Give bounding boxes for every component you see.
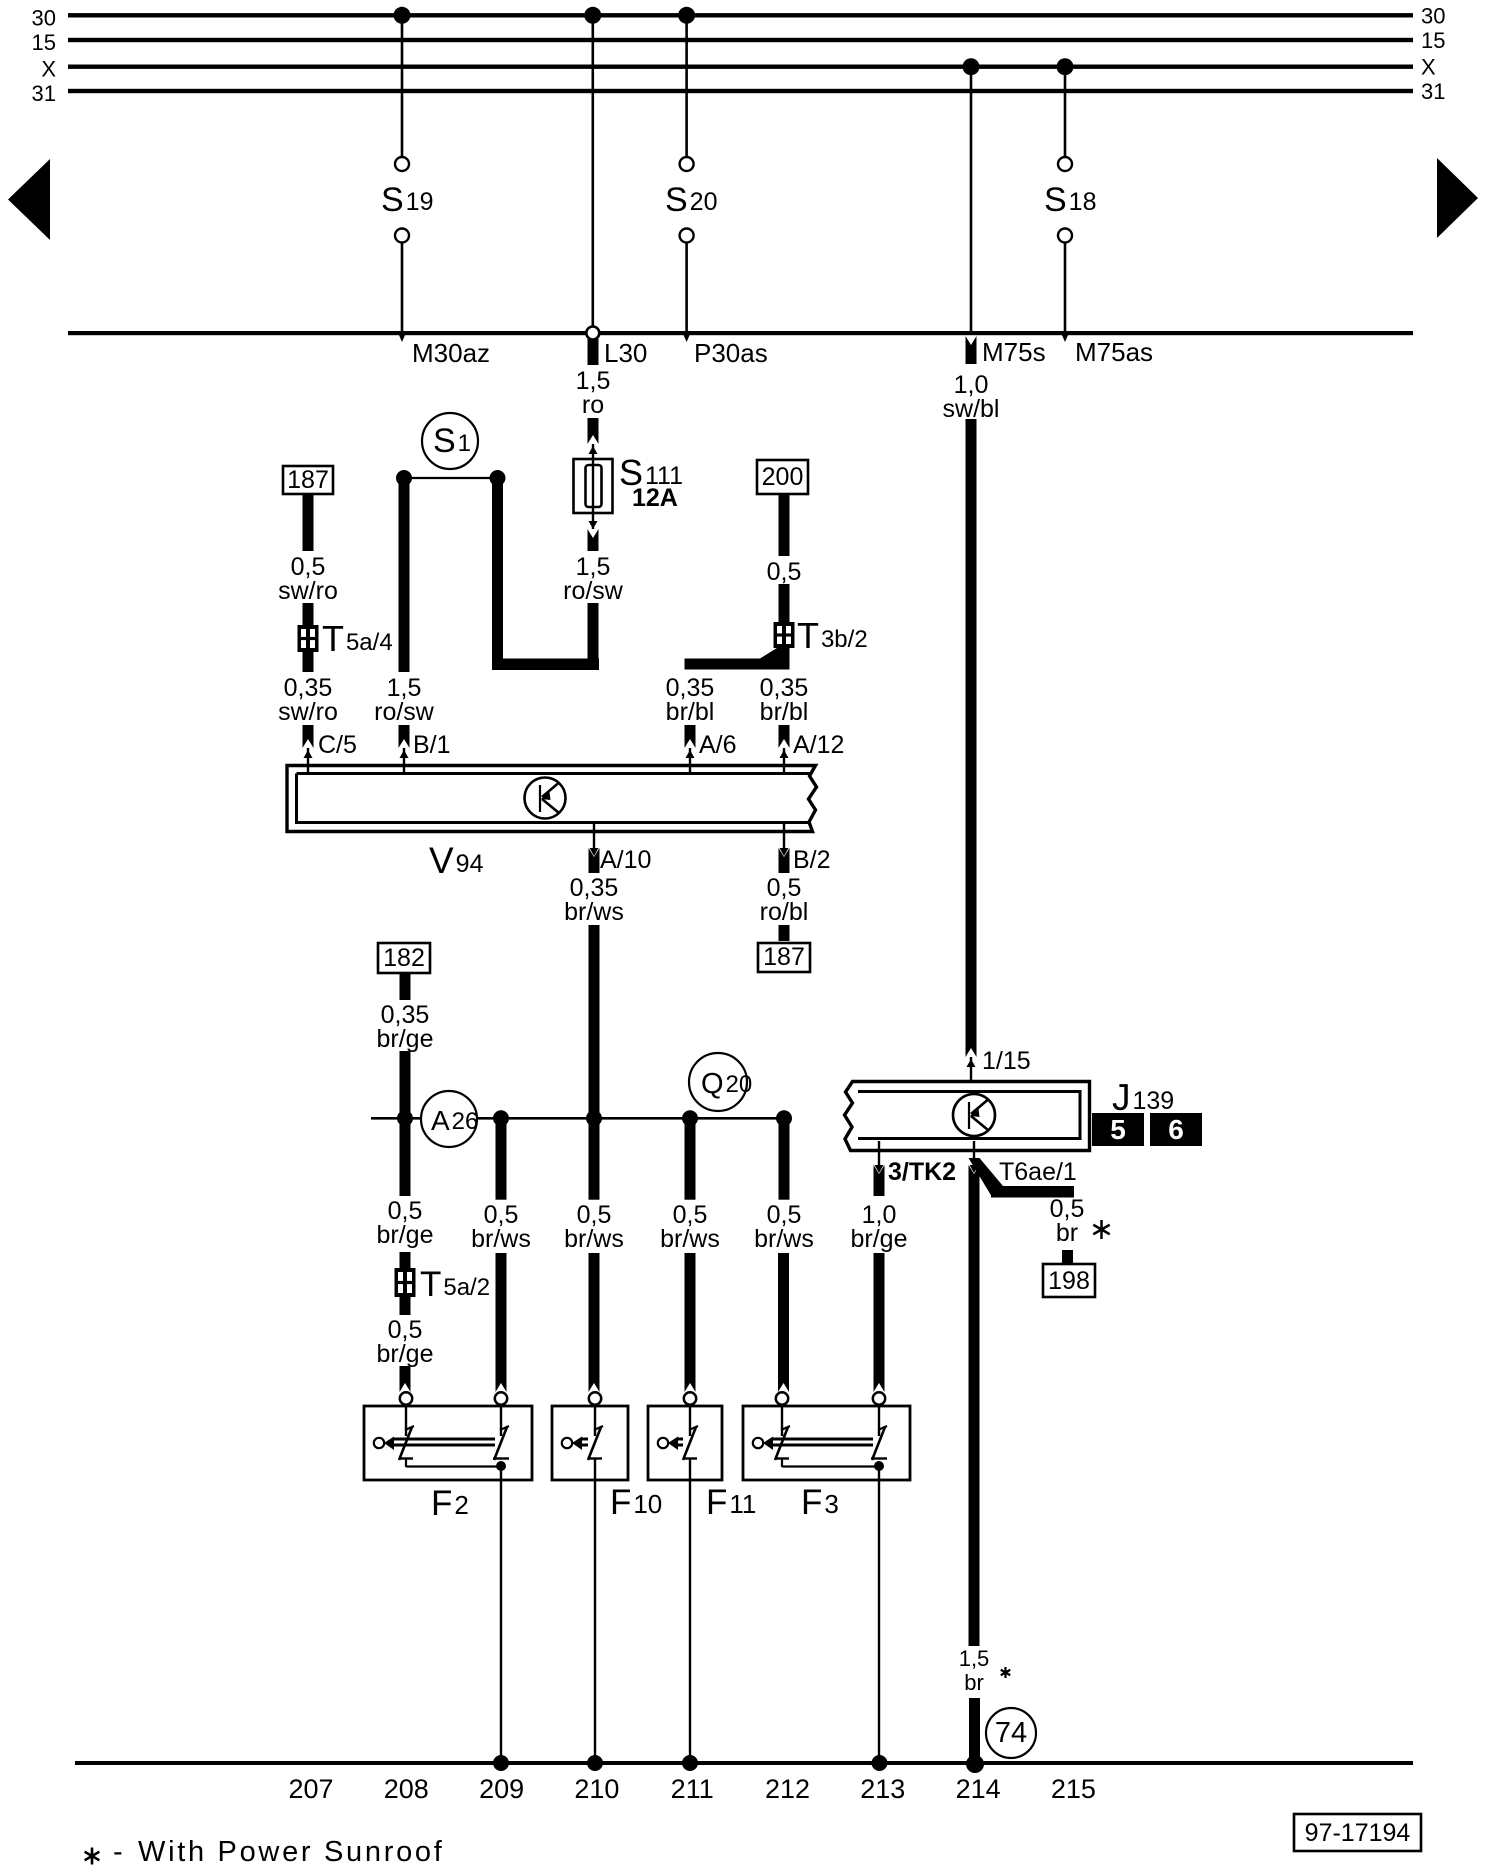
svg-text:210: 210 bbox=[574, 1774, 619, 1804]
svg-text:212: 212 bbox=[765, 1774, 810, 1804]
svg-text:0,5: 0,5 bbox=[767, 558, 802, 586]
svg-text:br/ge: br/ge bbox=[377, 1221, 434, 1249]
svg-text:br/ws: br/ws bbox=[660, 1225, 720, 1253]
svg-text:15: 15 bbox=[1421, 28, 1445, 53]
svg-text:20: 20 bbox=[690, 188, 718, 216]
svg-text:31: 31 bbox=[32, 81, 56, 106]
svg-text:A/6: A/6 bbox=[699, 731, 737, 759]
svg-text:5: 5 bbox=[1110, 1114, 1126, 1145]
svg-text:sw/ro: sw/ro bbox=[278, 577, 338, 605]
svg-text:B/2: B/2 bbox=[793, 846, 831, 874]
svg-text:br/bl: br/bl bbox=[666, 698, 715, 726]
svg-text:198: 198 bbox=[1048, 1267, 1090, 1295]
svg-text:br/ws: br/ws bbox=[754, 1225, 814, 1253]
svg-text:T: T bbox=[797, 615, 819, 656]
svg-text:br/ge: br/ge bbox=[377, 1340, 434, 1368]
svg-text:ro: ro bbox=[582, 391, 604, 419]
svg-text:19: 19 bbox=[406, 188, 434, 216]
svg-text:3b/2: 3b/2 bbox=[821, 626, 868, 653]
svg-text:br/bl: br/bl bbox=[760, 698, 809, 726]
svg-text:214: 214 bbox=[956, 1774, 1001, 1804]
svg-text:C/5: C/5 bbox=[318, 731, 357, 759]
svg-text:200: 200 bbox=[762, 463, 804, 491]
svg-text:S: S bbox=[1044, 181, 1067, 219]
svg-text:30: 30 bbox=[1421, 3, 1445, 28]
svg-text:187: 187 bbox=[763, 943, 805, 971]
svg-text:Q: Q bbox=[701, 1068, 724, 1100]
svg-text:2: 2 bbox=[454, 1490, 468, 1520]
svg-text:207: 207 bbox=[288, 1774, 333, 1804]
svg-text:br: br bbox=[964, 1670, 984, 1695]
svg-text:-: - bbox=[113, 1836, 123, 1868]
svg-text:S: S bbox=[665, 181, 688, 219]
svg-text:br: br bbox=[1056, 1219, 1078, 1247]
svg-text:10: 10 bbox=[633, 1489, 662, 1519]
svg-text:With Power Sunroof: With Power Sunroof bbox=[138, 1836, 445, 1868]
svg-text:182: 182 bbox=[383, 944, 425, 972]
svg-text:1,5: 1,5 bbox=[959, 1646, 990, 1671]
svg-text:sw/bl: sw/bl bbox=[943, 395, 1000, 423]
svg-text:208: 208 bbox=[384, 1774, 429, 1804]
svg-text:12A: 12A bbox=[632, 484, 678, 512]
svg-text:V: V bbox=[429, 840, 454, 881]
svg-text:3: 3 bbox=[824, 1489, 838, 1519]
svg-text:T6ae/1: T6ae/1 bbox=[999, 1158, 1077, 1186]
svg-text:A/10: A/10 bbox=[600, 846, 651, 874]
svg-text:L30: L30 bbox=[604, 338, 647, 368]
svg-text:br/ws: br/ws bbox=[564, 898, 624, 926]
svg-text:P30as: P30as bbox=[694, 338, 768, 368]
svg-text:20: 20 bbox=[726, 1071, 753, 1098]
svg-text:F: F bbox=[610, 1483, 631, 1522]
svg-text:1/15: 1/15 bbox=[982, 1047, 1031, 1075]
svg-text:ro/sw: ro/sw bbox=[374, 698, 435, 726]
svg-text:A/12: A/12 bbox=[793, 731, 844, 759]
svg-text:209: 209 bbox=[479, 1774, 524, 1804]
svg-text:ro/sw: ro/sw bbox=[563, 577, 624, 605]
svg-text:18: 18 bbox=[1069, 188, 1097, 216]
svg-text:5a/2: 5a/2 bbox=[443, 1274, 490, 1301]
svg-text:F: F bbox=[431, 1484, 452, 1523]
svg-text:T: T bbox=[322, 618, 344, 659]
svg-text:139: 139 bbox=[1133, 1087, 1175, 1115]
svg-text:A: A bbox=[431, 1105, 450, 1136]
svg-text:215: 215 bbox=[1051, 1774, 1096, 1804]
svg-text:M75s: M75s bbox=[982, 337, 1046, 367]
svg-text:S: S bbox=[381, 181, 404, 219]
svg-text:11: 11 bbox=[729, 1489, 756, 1519]
svg-text:26: 26 bbox=[452, 1108, 479, 1135]
svg-text:br/ws: br/ws bbox=[564, 1225, 624, 1253]
svg-text:T: T bbox=[420, 1265, 441, 1304]
svg-text:F: F bbox=[706, 1483, 727, 1522]
svg-text:J: J bbox=[1112, 1077, 1131, 1118]
svg-text:F: F bbox=[801, 1483, 822, 1522]
svg-text:M75as: M75as bbox=[1075, 337, 1153, 367]
svg-text:213: 213 bbox=[860, 1774, 905, 1804]
svg-text:M30az: M30az bbox=[412, 338, 490, 368]
svg-text:X: X bbox=[41, 57, 56, 82]
svg-text:15: 15 bbox=[32, 30, 56, 55]
svg-text:31: 31 bbox=[1421, 79, 1445, 104]
svg-text:B/1: B/1 bbox=[413, 731, 451, 759]
svg-text:1: 1 bbox=[458, 430, 471, 457]
svg-text:br/ge: br/ge bbox=[851, 1225, 908, 1253]
svg-text:ro/bl: ro/bl bbox=[760, 898, 809, 926]
svg-text:sw/ro: sw/ro bbox=[278, 698, 338, 726]
svg-text:S: S bbox=[433, 422, 456, 460]
svg-text:94: 94 bbox=[456, 850, 484, 878]
svg-text:211: 211 bbox=[671, 1774, 714, 1804]
svg-text:187: 187 bbox=[287, 466, 329, 494]
svg-text:X: X bbox=[1421, 55, 1436, 80]
svg-text:97-17194: 97-17194 bbox=[1305, 1819, 1411, 1847]
svg-text:br/ws: br/ws bbox=[471, 1225, 531, 1253]
svg-text:30: 30 bbox=[32, 5, 56, 30]
svg-text:6: 6 bbox=[1168, 1114, 1184, 1145]
svg-text:br/ge: br/ge bbox=[377, 1025, 434, 1053]
svg-text:74: 74 bbox=[995, 1717, 1027, 1749]
svg-text:5a/4: 5a/4 bbox=[346, 629, 393, 656]
svg-text:3/TK2: 3/TK2 bbox=[888, 1158, 956, 1186]
